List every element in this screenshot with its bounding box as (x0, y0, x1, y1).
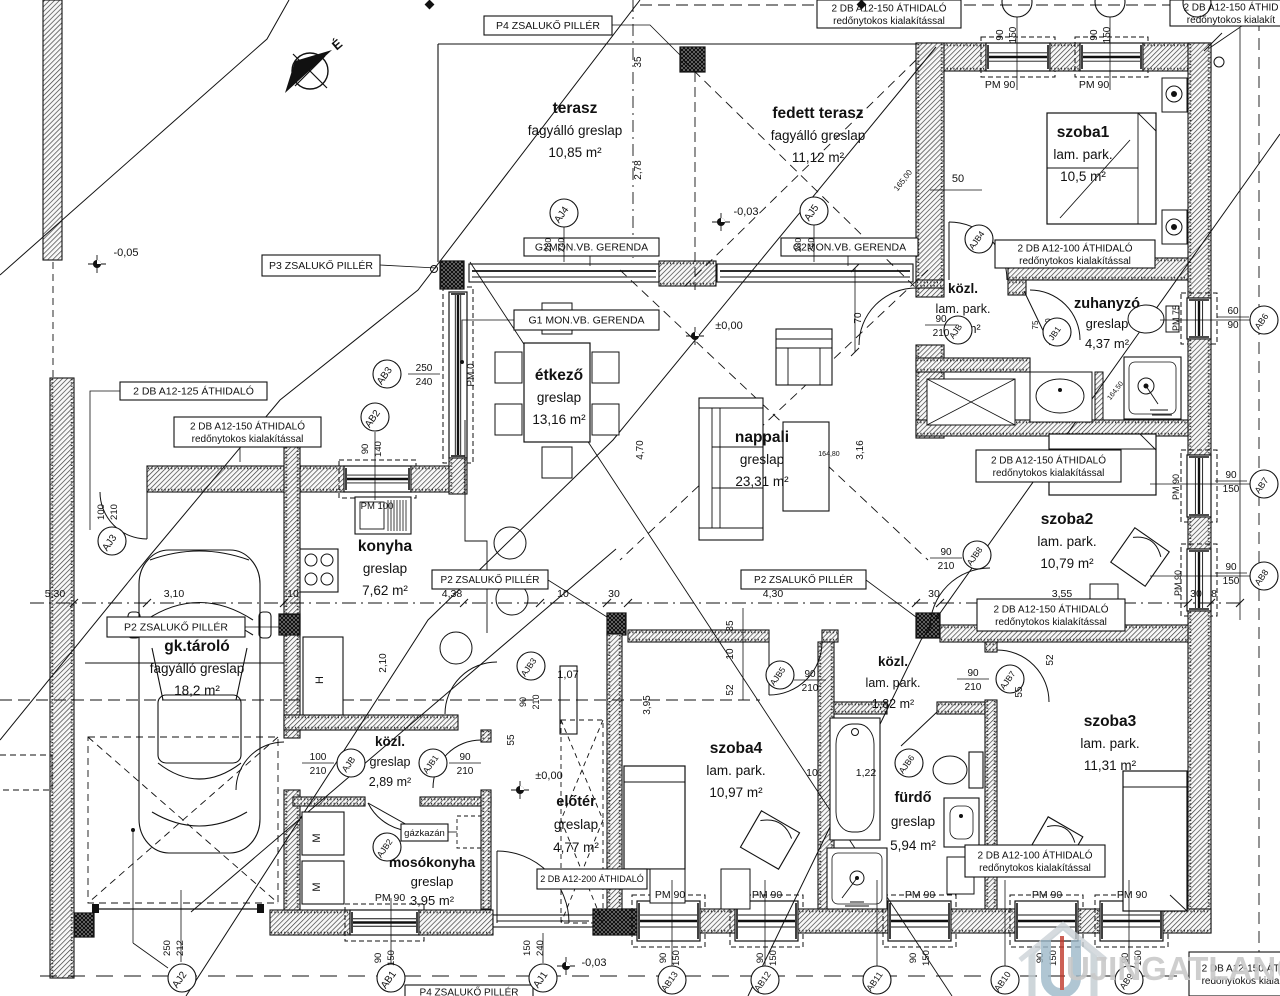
szoba2 bed (1049, 434, 1156, 495)
ref circle AB11 (863, 966, 891, 994)
room label terasz (528, 100, 623, 160)
svg-text:30: 30 (928, 588, 940, 600)
svg-text:90: 90 (804, 669, 816, 680)
dim AB3 250 240 (408, 363, 440, 388)
svg-text:52: 52 (1045, 654, 1056, 666)
door leaf furdo AJB6 (901, 712, 937, 746)
bottom wall mosokonyha right (419, 910, 493, 935)
svg-text:M: M (311, 882, 323, 891)
svg-text:étkező: étkező (535, 367, 583, 384)
AB13 leader (671, 880, 673, 966)
garage floor line (85, 662, 284, 664)
label box A12-100 furdo (965, 845, 1105, 877)
garage-konyha wall upper (284, 420, 300, 738)
door arc garage gate (100, 492, 147, 539)
survey cross left (88, 255, 106, 273)
label box gazkazan (401, 824, 448, 841)
svg-text:212: 212 (175, 940, 186, 956)
svg-text:90: 90 (1227, 320, 1239, 331)
furdo right wall stub (985, 642, 997, 652)
svg-text:fagyálló greslap: fagyálló greslap (528, 123, 623, 138)
AB12 leader (764, 880, 766, 966)
svg-text:PM 90: PM 90 (1117, 889, 1148, 901)
svg-text:-0,05: -0,05 (113, 247, 138, 259)
svg-text:greslap: greslap (370, 755, 411, 769)
ref circle AB10 (991, 966, 1019, 994)
watermark logo (1020, 925, 1106, 996)
ref circle AJB garage (337, 749, 365, 777)
circle mark on diagonal 3 (440, 632, 472, 664)
svg-text:210: 210 (802, 683, 819, 694)
svg-text:5,30: 5,30 (45, 588, 66, 600)
svg-text:PM 90: PM 90 (1032, 889, 1063, 901)
svg-text:5,94 m²: 5,94 m² (890, 838, 936, 853)
door leaf szoba1 AJB4 (948, 222, 950, 280)
svg-text:210: 210 (109, 504, 120, 520)
nappali armchair (776, 329, 832, 385)
AJ4 leader (563, 227, 565, 262)
svg-text:90: 90 (940, 547, 952, 558)
dim line PM100 (374, 432, 376, 500)
nappali dashed X arm2 (620, 270, 928, 560)
door arc entrance (497, 851, 569, 923)
svg-text:18,2 m²: 18,2 m² (174, 683, 220, 698)
konyha north wall right piece (411, 466, 465, 492)
dim pair mosokonyha win (373, 950, 397, 966)
boundary dashed continuation (52, 262, 54, 380)
svg-text:közl.: közl. (878, 654, 908, 669)
washing machine 1 (302, 812, 344, 855)
survey cross nappali (686, 327, 704, 345)
szoba1 nightstand bottom (1162, 210, 1187, 244)
svg-text:35: 35 (725, 620, 736, 632)
window PM90 szoba1 right (1075, 37, 1148, 77)
top exterior wall segment right (1143, 43, 1211, 71)
svg-text:150: 150 (1223, 484, 1240, 495)
svg-text:fedett terasz: fedett terasz (772, 105, 864, 122)
AB9 leader (1128, 880, 1130, 966)
ref circle AJB2 (373, 833, 401, 861)
svg-text:2 DB A12-150 ÁTHIDALÓ: 2 DB A12-150 ÁTHIDALÓ (190, 419, 305, 432)
svg-text:250: 250 (162, 940, 173, 956)
svg-text:szoba4: szoba4 (710, 740, 763, 757)
fedett terasz dashed X arm1 (683, 60, 916, 288)
pillar P3 (440, 261, 464, 289)
svg-text:1,07: 1,07 (557, 669, 578, 681)
svg-text:közl.: közl. (948, 281, 978, 296)
svg-text:fagyálló greslap: fagyálló greslap (771, 128, 866, 143)
svg-text:G1 MON.VB. GERENDA: G1 MON.VB. GERENDA (528, 315, 644, 327)
svg-text:250: 250 (416, 363, 433, 374)
garage parking dashed rect (88, 737, 278, 903)
svg-text:240: 240 (416, 377, 433, 388)
nappali coffee table (783, 422, 829, 511)
dim line 70 (851, 264, 859, 356)
window PM90 szoba3 right (1095, 895, 1168, 947)
window PM75 zuhanyzo (1181, 293, 1217, 344)
svg-text:2,78: 2,78 (633, 160, 644, 180)
AB1 leader (390, 898, 392, 963)
label box A12-150 szoba2 top (976, 450, 1121, 482)
furdo shower tray (827, 848, 887, 909)
svg-text:100: 100 (96, 504, 107, 520)
svg-text:210: 210 (938, 561, 955, 572)
svg-text:1,82 m²: 1,82 m² (872, 697, 914, 711)
garage bottom-left pillar (73, 913, 94, 937)
leader A12-125 (90, 391, 120, 530)
svg-text:210: 210 (531, 694, 541, 709)
szoba3 bed (1123, 771, 1187, 911)
etkezo chair 1 (495, 352, 522, 383)
site boundary diagonal B2 (0, 0, 640, 740)
top right corner circle (1214, 57, 1224, 67)
ref circle AJB3 (517, 652, 545, 680)
svg-text:90: 90 (459, 752, 471, 763)
szoba1 nightstand top (1162, 78, 1187, 112)
room label etkezo (532, 367, 586, 427)
ref circle AJB5 (766, 661, 794, 689)
window PM90 furdo (883, 895, 956, 947)
svg-text:PM 90: PM 90 (752, 889, 783, 901)
door arc szoba1 AJB4 (949, 222, 1007, 280)
garage left wall (50, 378, 74, 978)
ref circle AJB1 (419, 749, 447, 777)
svg-text:90: 90 (755, 953, 766, 964)
svg-text:150: 150 (768, 950, 779, 966)
svg-text:10: 10 (287, 588, 299, 600)
bottom wall szoba4-furdo (798, 909, 888, 933)
svg-text:2 DB A12-100 ÁTHIDALÓ: 2 DB A12-100 ÁTHIDALÓ (1017, 241, 1132, 254)
etkezo chair 6 (542, 303, 572, 334)
top survey mark 1 (425, 0, 435, 9)
ref circle AJ1 (529, 964, 557, 992)
svg-text:zuhanyzó: zuhanyzó (1074, 296, 1140, 312)
label box pillar bottom (405, 985, 533, 996)
cut circle top win1 (1002, 0, 1032, 17)
survey cross terasz (712, 213, 730, 231)
svg-text:3,95: 3,95 (642, 695, 653, 715)
szoba4 top wall right (822, 630, 838, 642)
zuhanyzo shower box (927, 379, 1015, 425)
svg-text:2 DB A12-150 ÁTHIDALÓ: 2 DB A12-150 ÁTHIDALÓ (991, 453, 1106, 466)
svg-text:PM 0: PM 0 (466, 363, 477, 387)
ref circle AB2 (361, 403, 389, 431)
etkezo chair 2 (495, 404, 522, 435)
svg-text:150: 150 (1102, 26, 1113, 43)
label box A12-100 szoba1 (995, 240, 1155, 268)
right exterior wall lower (1188, 611, 1211, 933)
svg-text:3,95 m²: 3,95 m² (410, 893, 455, 908)
ref circle AB7 (1250, 470, 1278, 498)
wardrobe X2b (561, 820, 603, 923)
dim top win2 (1089, 26, 1113, 43)
AB11 leader (876, 880, 878, 966)
label box P2 mid (432, 570, 548, 589)
svg-text:közl.: közl. (375, 734, 405, 749)
leader P2 garage (245, 626, 279, 628)
garage north wall (147, 466, 344, 492)
svg-text:240: 240 (556, 238, 566, 252)
svg-text:30: 30 (608, 588, 620, 600)
dim 35 top (633, 56, 644, 68)
ref circle AJ4 (550, 199, 578, 227)
nappali sofa (699, 398, 763, 540)
leader G1 (462, 320, 514, 360)
door arc szoba2 AJB8 (930, 568, 990, 628)
svg-text:100: 100 (310, 752, 327, 763)
terasz left edge line (437, 44, 439, 262)
room label kozl1 (936, 281, 991, 336)
svg-text:150: 150 (386, 950, 397, 966)
furdo toilet (933, 752, 983, 788)
eloter wardrobe dashed (561, 720, 603, 923)
window PM90 mosokonyha (345, 904, 424, 941)
gazkazan dashed box (457, 816, 481, 848)
label box P3 pillar (262, 255, 380, 276)
svg-text:90: 90 (1225, 470, 1237, 481)
svg-text:redőnytokos kialakítással: redőnytokos kialakítással (979, 863, 1091, 874)
label box A12-150 topright (1170, 0, 1280, 26)
bottom boundary dashed line (40, 975, 1245, 977)
svg-text:2 DB A12-150 ÁTHID: 2 DB A12-150 ÁTHID (1183, 0, 1278, 13)
svg-text:±0,00: ±0,00 (535, 770, 562, 782)
svg-text:90: 90 (1089, 29, 1100, 41)
svg-text:greslap: greslap (740, 452, 784, 467)
svg-text:23,31 m²: 23,31 m² (735, 474, 789, 489)
svg-text:2,10: 2,10 (378, 653, 389, 673)
site diagonal D5 (470, 262, 952, 996)
dim 278 (633, 160, 644, 180)
svg-text:52: 52 (725, 684, 736, 696)
nappali east wall upper stub (916, 280, 944, 288)
AB10 leader (1004, 880, 1006, 966)
svg-text:greslap: greslap (1086, 316, 1129, 331)
right dim vertical line (1239, 250, 1241, 620)
leader A12-150 west (239, 447, 241, 462)
top exterior wall segment mid (1050, 43, 1080, 71)
svg-text:előtér: előtér (556, 794, 596, 810)
svg-text:4,37 m²: 4,37 m² (1085, 336, 1130, 351)
svg-text:szoba1: szoba1 (1057, 124, 1110, 141)
room label kozl3 (369, 734, 411, 789)
entrance pillar (593, 909, 637, 935)
svg-text:2 DB A12-150 ÁTHIDALÓ: 2 DB A12-150 ÁTHIDALÓ (993, 602, 1108, 615)
right exterior wall upper (1188, 43, 1211, 298)
svg-text:PM 90: PM 90 (375, 892, 406, 904)
label box G1 (514, 310, 659, 330)
szoba4 desk (721, 869, 750, 909)
kozl1 bottom wall (916, 358, 1030, 372)
svg-text:10,5 m²: 10,5 m² (1060, 169, 1106, 184)
pillar P2 szoba2 (916, 613, 940, 638)
garage X arm2 (88, 737, 278, 903)
svg-text:55: 55 (1014, 686, 1025, 698)
beam G2 right (717, 264, 913, 282)
kozl1-zuhanyzo divider wall (1008, 280, 1026, 295)
fedett terasz dashed X arm2 (683, 60, 916, 288)
room label fedett terasz (771, 105, 866, 165)
svg-text:280: 280 (543, 238, 553, 252)
ref line AJ4 vertical (632, 0, 634, 258)
ref circle AJB8 (963, 541, 991, 569)
svg-text:lam. park.: lam. park. (706, 763, 765, 778)
dim AB6 60 90 (1217, 306, 1249, 331)
svg-text:szoba3: szoba3 (1084, 713, 1137, 730)
etkezo chair 3 (592, 352, 619, 383)
leader gazkazan (448, 831, 457, 833)
ref circle AJB10 (1043, 318, 1071, 346)
furdo right wall (985, 700, 997, 909)
room label szoba4 (706, 740, 765, 800)
svg-text:2 DB A12-100 ÁTHIDALÓ: 2 DB A12-100 ÁTHIDALÓ (977, 848, 1092, 861)
pillar P2 szoba4 (607, 613, 626, 635)
svg-text:H: H (314, 676, 326, 684)
door leaf garage gate (146, 492, 148, 539)
ref circle AJB9 (944, 316, 972, 344)
svg-text:10: 10 (557, 588, 569, 600)
svg-text:150: 150 (1008, 26, 1019, 43)
szoba2 top wall (916, 420, 1188, 436)
etkezo dining table (524, 343, 590, 442)
dim 70 nappali (853, 312, 864, 324)
wardrobe X2a (561, 820, 603, 923)
zuhanyzo shower tray (1124, 357, 1181, 419)
svg-text:10: 10 (725, 648, 736, 660)
svg-text:75: 75 (1031, 320, 1040, 329)
ref circle AB6 (1250, 306, 1278, 334)
ref circle AJ3 (98, 527, 126, 555)
dim pair w3 (908, 950, 932, 966)
room label gktarolo (150, 638, 245, 698)
svg-text:210: 210 (457, 766, 474, 777)
pillar block terasz middle (659, 261, 716, 286)
room label szoba2 (1037, 511, 1096, 571)
leader P2 right (866, 580, 916, 617)
svg-text:90: 90 (935, 314, 947, 325)
svg-text:redőnytokos kialakítással: redőnytokos kialakítással (1019, 256, 1131, 267)
door arc konyha-eloter AJB3 (445, 662, 497, 714)
ref circle AJB6 (895, 749, 923, 777)
window PM90 szoba2 upper (1181, 450, 1217, 522)
zuhanyzo washbasin low (1030, 372, 1092, 422)
ref circle AB13 (658, 966, 686, 994)
svg-text:150: 150 (522, 940, 533, 956)
door arc kozl1 (859, 288, 916, 345)
ref circle AJ2 (168, 964, 196, 992)
terasz front edge line (438, 43, 916, 45)
AB7 leader (1150, 483, 1250, 485)
svg-text:35: 35 (633, 56, 644, 68)
window PM90 szoba4 right (730, 895, 803, 947)
window PM90 szoba2 lower (1181, 544, 1217, 616)
dimension row tick marks (70, 599, 1244, 607)
szoba2 armchair (1111, 528, 1169, 586)
konyha floor edge line (465, 420, 487, 633)
dim pair w2 (755, 950, 779, 966)
nappali dashed X arm1 (620, 270, 928, 560)
top win2 leader (1109, 17, 1111, 90)
label box G2 right (781, 238, 918, 256)
circle mark on diagonal 1 (494, 527, 526, 559)
svg-text:210: 210 (310, 766, 327, 777)
zuhanyzo wc (1128, 305, 1179, 333)
svg-text:greslap: greslap (363, 561, 407, 576)
svg-text:164,80: 164,80 (818, 451, 840, 458)
garage door opening line (92, 904, 264, 913)
door arc kozl3-eloter AJB1 (433, 740, 481, 788)
svg-text:PM 75: PM 75 (1171, 305, 1181, 331)
svg-text:PM 90: PM 90 (1171, 474, 1181, 500)
furdo cabinet (947, 857, 974, 894)
svg-text:UJINGATLANOK.HU: UJINGATLANOK.HU (1066, 950, 1280, 987)
konyha stove (300, 549, 338, 592)
svg-text:3,10: 3,10 (164, 588, 185, 600)
szoba4 left wall (607, 634, 622, 909)
AB8 leader (1150, 575, 1250, 577)
svg-text:60: 60 (1227, 306, 1239, 317)
wardrobe X1b (561, 720, 603, 820)
svg-text:50: 50 (952, 173, 964, 185)
etkezo chair 4 (592, 404, 619, 435)
svg-text:greslap: greslap (537, 390, 581, 405)
konyha bottom wall (284, 715, 458, 730)
svg-text:P3 ZSALUKŐ PILLÉR: P3 ZSALUKŐ PILLÉR (269, 258, 373, 272)
svg-text:lam. park.: lam. park. (1037, 534, 1096, 549)
door arc zuhanyzo (1030, 290, 1080, 340)
svg-text:10,85 m²: 10,85 m² (548, 145, 602, 160)
door arc szoba3 AJB7 (997, 650, 1049, 702)
leader P3 circle (431, 266, 438, 273)
label box A12-150 west (174, 417, 321, 447)
szoba4 bed foot (650, 869, 685, 903)
north arrow compass (285, 36, 346, 93)
svg-text:210: 210 (965, 682, 982, 693)
wall stub below glass (449, 458, 467, 494)
svg-text:4,70: 4,70 (635, 440, 646, 460)
bottom wall furdo-szoba3 (951, 909, 1015, 933)
svg-text:redőnytokos kialakítással: redőnytokos kialakítással (993, 468, 1105, 479)
dim 470 (635, 440, 646, 460)
dim AJB garage 100 210 (302, 752, 334, 777)
room label kozl2 (866, 654, 921, 711)
svg-text:4,77 m²: 4,77 m² (553, 840, 599, 855)
svg-text:90: 90 (1225, 562, 1237, 573)
bottom wall mosokonyha left (270, 910, 350, 935)
dim pair w4 (1035, 950, 1059, 966)
svg-text:7,62 m²: 7,62 m² (362, 583, 408, 598)
dim AJ5 280 240 (793, 238, 816, 252)
mosokonyha top wall right (420, 797, 491, 806)
leader P4 (612, 25, 680, 55)
leader G1 dot (460, 360, 464, 364)
leader G2 right (847, 256, 849, 266)
label box A12-200 eloter (537, 869, 647, 889)
window PM90 szoba1 left (981, 37, 1055, 77)
top exterior wall segment left (916, 43, 986, 71)
dim 90 210 kozl1 (925, 314, 957, 339)
beam G2 left (469, 264, 659, 282)
bottom wall szoba3 mid (1078, 909, 1100, 933)
label box A12-125 (120, 382, 267, 400)
room label szoba3 (1080, 713, 1139, 773)
ref circle AJ5 (800, 197, 828, 225)
svg-text:90: 90 (360, 444, 371, 455)
nappali east wall lower (916, 345, 944, 438)
ref circle AJB7 (996, 665, 1024, 693)
ref circle AB1 (377, 964, 405, 992)
szoba1 bottom wall (1008, 258, 1188, 280)
cut circle top right (1183, 0, 1211, 17)
